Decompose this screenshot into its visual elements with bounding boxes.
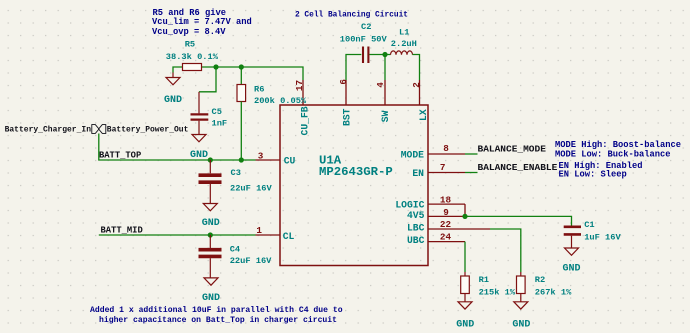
svg-text:UBC: UBC bbox=[407, 235, 425, 246]
svg-text:1uF 16V: 1uF 16V bbox=[584, 233, 621, 243]
svg-text:4: 4 bbox=[375, 82, 386, 88]
svg-text:1nF: 1nF bbox=[212, 119, 228, 129]
pin 18 LOGIC bbox=[395, 194, 465, 210]
capacitor C3 bbox=[199, 160, 273, 203]
capacitor C4 bbox=[199, 235, 273, 278]
svg-text:22: 22 bbox=[440, 219, 452, 230]
svg-text:3: 3 bbox=[258, 150, 264, 161]
capacitor C2 bbox=[340, 22, 388, 63]
svg-text:MODE High: Boost-balance: MODE High: Boost-balance bbox=[555, 140, 681, 150]
ground below C5 bbox=[190, 135, 208, 162]
svg-text:22uF 16V: 22uF 16V bbox=[230, 183, 272, 193]
ground below R1 bbox=[456, 302, 474, 331]
svg-text:24: 24 bbox=[440, 232, 452, 243]
node BATT_MID junction C4 bbox=[208, 232, 213, 237]
wire C2 to junction SW bbox=[370, 54, 391, 56]
node 4V5 junction bbox=[462, 214, 467, 219]
svg-text:SW: SW bbox=[380, 110, 391, 122]
capacitor C5 bbox=[191, 92, 228, 134]
svg-text:BALANCE_MODE: BALANCE_MODE bbox=[478, 143, 547, 154]
inductor L1 bbox=[391, 28, 417, 55]
svg-text:C4: C4 bbox=[230, 244, 240, 254]
comment block bottom bbox=[90, 306, 343, 325]
svg-text:MP2643GR-P: MP2643GR-P bbox=[319, 165, 393, 179]
pin 8 MODE bbox=[401, 143, 478, 161]
svg-text:BALANCE_ENABLE: BALANCE_ENABLE bbox=[478, 162, 558, 173]
op-amp U1 body (IC MP2643GR-P) bbox=[280, 105, 428, 266]
pin 3 stub CU bbox=[256, 159, 281, 161]
pin 7 EN bbox=[412, 162, 477, 179]
svg-text:L1: L1 bbox=[399, 28, 409, 38]
pin 1 stub CL bbox=[256, 234, 281, 236]
wire junction A to C5 bbox=[199, 67, 216, 92]
resistor R2 bbox=[517, 272, 573, 302]
node CU_FB junction A bbox=[213, 64, 218, 69]
wire 4V5 to C1 bbox=[465, 216, 572, 226]
svg-text:EN Low: Sleep: EN Low: Sleep bbox=[559, 170, 627, 180]
wire label drop to BATT_TOP bbox=[99, 134, 256, 161]
capacitor C1 bbox=[564, 220, 622, 248]
svg-text:100nF 50V: 100nF 50V bbox=[340, 34, 388, 44]
svg-text:LX: LX bbox=[418, 109, 429, 121]
pin 4 SW stub bbox=[384, 80, 386, 105]
svg-text:9: 9 bbox=[443, 207, 449, 218]
svg-text:BATT_TOP: BATT_TOP bbox=[99, 151, 141, 161]
node BATT_TOP junction C3 bbox=[208, 157, 213, 162]
svg-text:EN: EN bbox=[412, 168, 424, 179]
svg-text:7: 7 bbox=[440, 162, 446, 173]
pin 2 LX stub bbox=[419, 80, 421, 105]
svg-text:GND: GND bbox=[202, 218, 220, 229]
svg-text:Battery_Power_Out: Battery_Power_Out bbox=[107, 125, 189, 134]
wire BATT_MID bbox=[99, 234, 256, 236]
svg-text:267k 1%: 267k 1% bbox=[535, 288, 572, 298]
resistor R5 bbox=[166, 40, 219, 73]
comment block MODE/EN notes bbox=[555, 140, 681, 180]
2-cell balancing top: wire BST to C2 bbox=[346, 55, 361, 81]
svg-text:2 Cell Balancing Circuit: 2 Cell Balancing Circuit bbox=[295, 9, 408, 19]
svg-text:Battery_Charger_In: Battery_Charger_In bbox=[5, 125, 92, 134]
svg-text:R6: R6 bbox=[254, 84, 264, 94]
node SW junction bbox=[382, 52, 387, 57]
svg-text:4V5: 4V5 bbox=[407, 210, 425, 221]
svg-text:8: 8 bbox=[443, 143, 449, 154]
svg-text:R5: R5 bbox=[185, 40, 195, 50]
global label Battery_Charger_In bbox=[5, 125, 99, 135]
svg-text:GND: GND bbox=[202, 293, 220, 304]
svg-text:R1: R1 bbox=[479, 275, 489, 285]
svg-text:GND: GND bbox=[456, 319, 474, 330]
svg-text:MODE Low: Buck-balance: MODE Low: Buck-balance bbox=[555, 150, 671, 160]
svg-text:LBC: LBC bbox=[407, 223, 425, 234]
pin 9 4V5 bbox=[407, 207, 465, 221]
svg-text:C5: C5 bbox=[212, 107, 222, 117]
ground below R5 bbox=[164, 73, 182, 107]
svg-text:Vcu_ovp = 8.4V: Vcu_ovp = 8.4V bbox=[152, 27, 226, 37]
svg-text:GND: GND bbox=[562, 264, 580, 275]
pin 17 CU_FB stub bbox=[302, 80, 304, 105]
svg-text:200k 0.05%: 200k 0.05% bbox=[254, 96, 307, 106]
pin 6 BST stub bbox=[345, 80, 347, 105]
wire LBC to R2 bbox=[490, 229, 521, 272]
svg-text:BATT_MID: BATT_MID bbox=[101, 226, 143, 236]
svg-text:higher capacitance on Batt_Top: higher capacitance on Batt_Top in charge… bbox=[99, 316, 337, 325]
resistor R6 bbox=[237, 67, 307, 160]
svg-text:6: 6 bbox=[338, 79, 349, 85]
svg-text:LOGIC: LOGIC bbox=[395, 200, 424, 211]
svg-text:C3: C3 bbox=[231, 168, 241, 178]
wire top feedback net bbox=[202, 67, 304, 80]
svg-text:215k 1%: 215k 1% bbox=[479, 288, 516, 298]
svg-text:CU_FB: CU_FB bbox=[300, 106, 311, 135]
svg-text:BST: BST bbox=[341, 108, 352, 126]
resistor R1 bbox=[461, 272, 516, 302]
ground below C1 bbox=[562, 248, 580, 275]
wire L1 to LX bbox=[413, 55, 420, 81]
svg-text:17: 17 bbox=[294, 80, 305, 91]
svg-text:C1: C1 bbox=[584, 220, 594, 230]
node BATT_TOP junction R6 bbox=[239, 157, 244, 162]
global label Battery_Power_Out bbox=[99, 125, 189, 135]
comment text block top-left bbox=[152, 8, 252, 37]
svg-text:C2: C2 bbox=[361, 22, 371, 32]
svg-text:MODE: MODE bbox=[401, 150, 424, 161]
pin 24 UBC bbox=[407, 232, 465, 246]
svg-text:Vcu_lim = 7.47V and: Vcu_lim = 7.47V and bbox=[152, 17, 252, 27]
svg-text:CU: CU bbox=[284, 156, 296, 167]
wire SW drop bbox=[384, 55, 386, 81]
svg-text:Added 1 x additional 10uF in p: Added 1 x additional 10uF in parallel wi… bbox=[90, 306, 343, 315]
ground below R2 bbox=[512, 302, 530, 331]
ground below C4 bbox=[202, 278, 220, 304]
wire pin18 jog to 4V5 bbox=[464, 204, 466, 216]
svg-text:GND: GND bbox=[164, 95, 182, 106]
svg-text:GND: GND bbox=[512, 319, 530, 330]
svg-text:CL: CL bbox=[283, 231, 295, 242]
svg-text:22uF 16V: 22uF 16V bbox=[230, 256, 272, 266]
node junction B bbox=[239, 64, 244, 69]
pin 22 LBC bbox=[407, 219, 490, 233]
svg-text:18: 18 bbox=[440, 194, 452, 205]
svg-text:2.2uH: 2.2uH bbox=[391, 39, 417, 49]
svg-text:2: 2 bbox=[411, 82, 422, 88]
wire UBC to R1 bbox=[464, 242, 466, 272]
svg-text:1: 1 bbox=[256, 225, 262, 236]
svg-text:38.3k 0.1%: 38.3k 0.1% bbox=[166, 52, 219, 62]
svg-text:R2: R2 bbox=[535, 275, 545, 285]
ground below C3 bbox=[202, 204, 220, 230]
